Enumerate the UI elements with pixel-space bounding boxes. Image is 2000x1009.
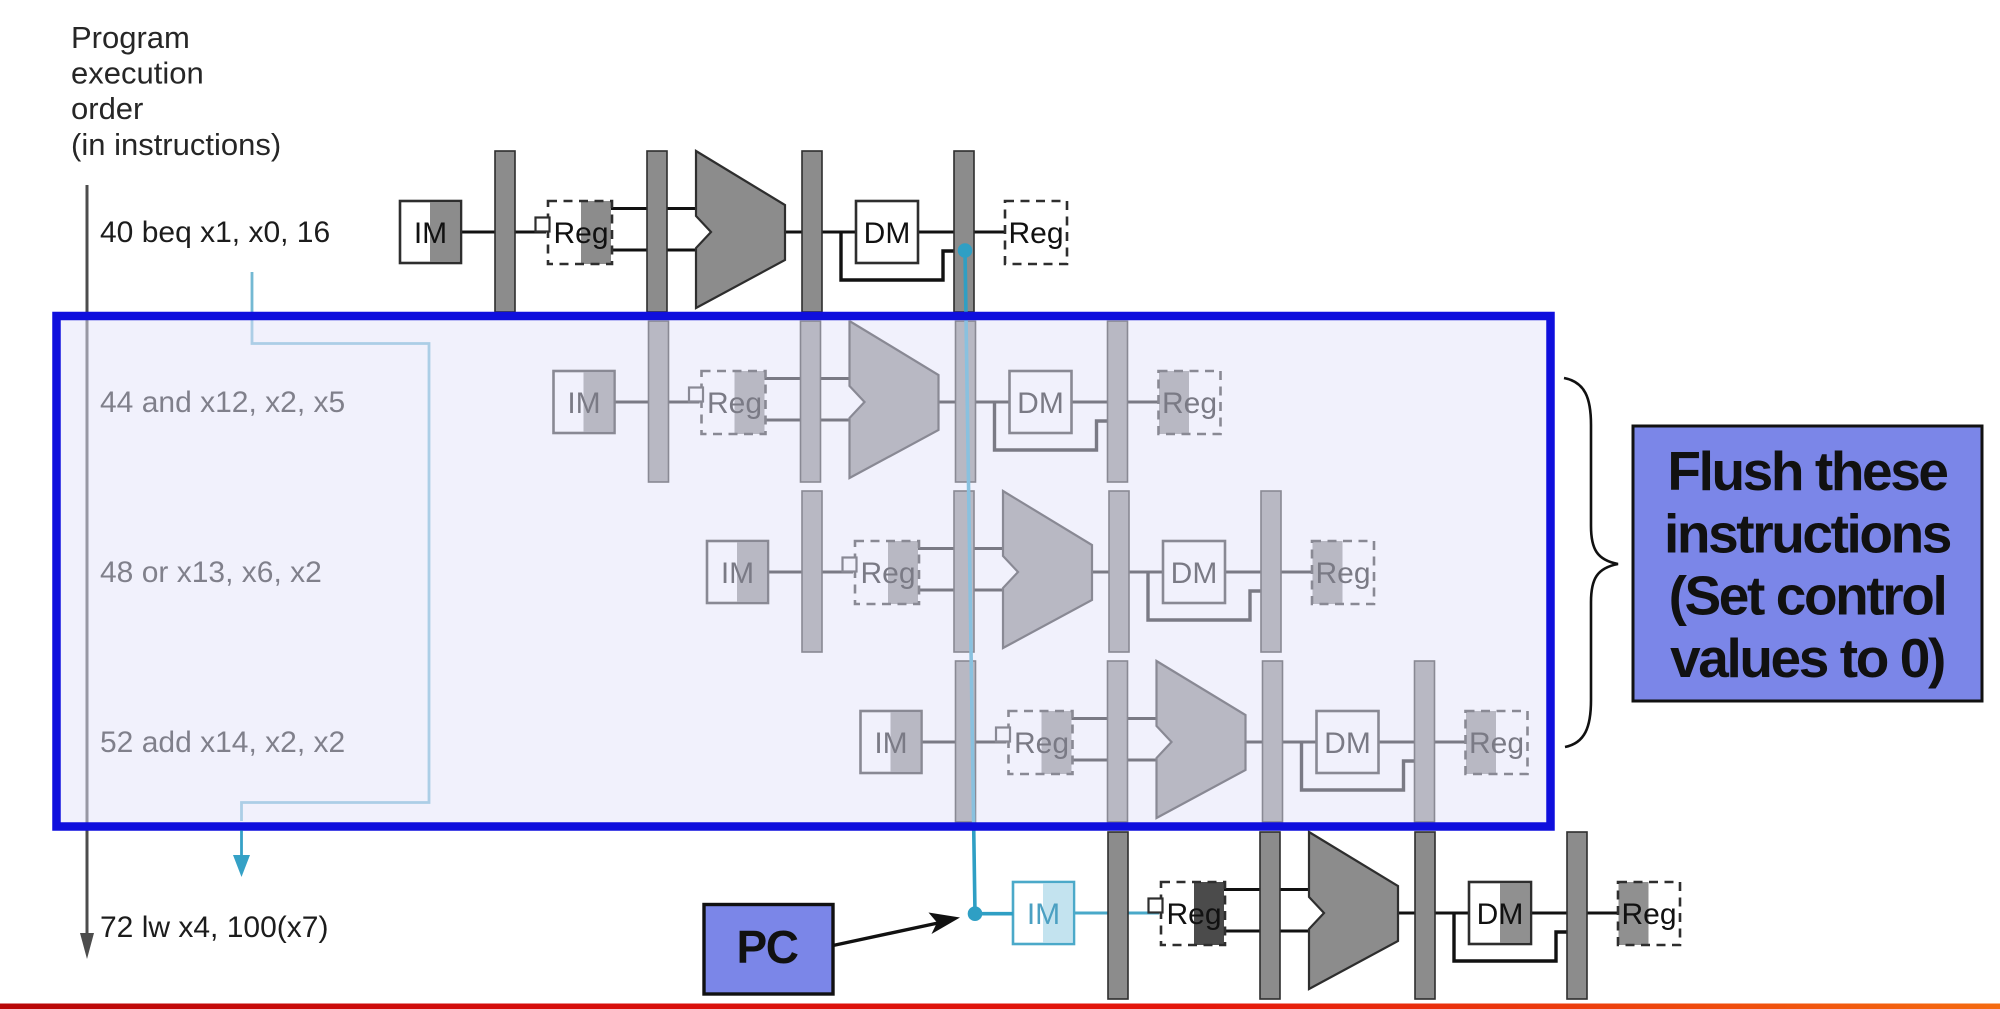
svg-text:Reg: Reg [1166,898,1221,931]
svg-text:72 lw x4, 100(x7): 72 lw x4, 100(x7) [100,911,328,944]
svg-text:(Set control: (Set control [1669,565,1946,627]
svg-text:IM: IM [414,217,447,250]
svg-text:DM: DM [864,217,911,250]
svg-text:IM: IM [1027,898,1060,931]
svg-text:40 beq x1, x0, 16: 40 beq x1, x0, 16 [100,216,330,249]
svg-text:Reg: Reg [1621,898,1676,931]
svg-text:(in instructions): (in instructions) [71,127,281,162]
svg-text:instructions: instructions [1664,502,1951,564]
svg-text:DM: DM [1477,898,1524,931]
svg-text:PC: PC [737,921,798,973]
svg-text:order: order [71,91,143,126]
svg-text:Program: Program [71,20,190,55]
svg-text:Flush these: Flush these [1667,440,1947,502]
svg-text:Reg: Reg [553,217,608,250]
svg-text:Reg: Reg [1008,217,1063,250]
svg-text:values to 0): values to 0) [1670,627,1944,689]
svg-text:execution: execution [71,56,204,91]
